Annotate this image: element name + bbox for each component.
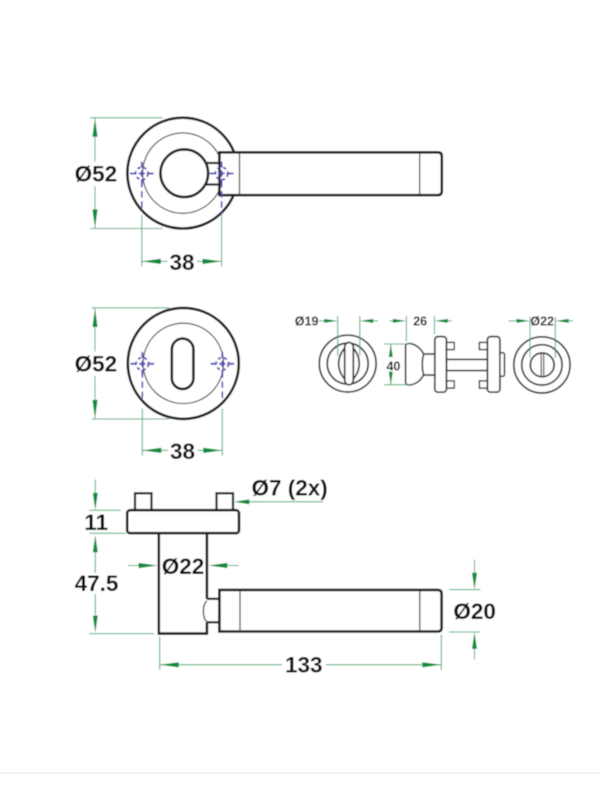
dim Ø20 upper line xyxy=(474,560,476,574)
svg-text:38: 38 xyxy=(169,250,194,275)
dim 47.5 arrow down xyxy=(93,616,98,633)
svg-text:38: 38 xyxy=(170,439,195,464)
svg-text:Ø19: Ø19 xyxy=(295,315,319,329)
dim Ø20 lower line xyxy=(474,649,476,660)
dim Ø52 arrow up xyxy=(92,308,97,327)
clip plate1 top xyxy=(446,342,454,349)
dim Ø52 extension lines xyxy=(92,308,170,419)
centerline left (blue dashed) xyxy=(141,371,143,398)
dim 11 extension lines xyxy=(89,510,126,533)
lever end cap line side xyxy=(419,590,421,632)
dim 40 text backing xyxy=(385,358,402,371)
dim Ø52 arrow down xyxy=(92,400,97,419)
thumbturn wing left xyxy=(339,345,349,382)
turn rose inner ring xyxy=(327,343,368,384)
centerline right (blue dashed) xyxy=(221,181,223,213)
dim 38 arrow right xyxy=(203,259,222,264)
escutcheon inner ring xyxy=(143,323,223,403)
dim 26 extension lines xyxy=(406,316,434,342)
dim Ø19 right line xyxy=(373,320,379,322)
dim 38 arrow right xyxy=(203,448,222,453)
lever grip divider xyxy=(239,152,241,195)
screw mark left xyxy=(130,162,154,186)
turn knob dome xyxy=(406,344,424,385)
Ø7 leader arrow xyxy=(234,499,249,504)
dim Ø52 line xyxy=(94,118,96,229)
dim 26 right arrow xyxy=(434,319,448,323)
dim 38 line xyxy=(142,449,222,451)
clip plate2 bottom xyxy=(479,381,487,388)
dim 133 arrow left xyxy=(160,662,179,667)
screw mark left xyxy=(131,352,155,376)
dim 47.5 upper line xyxy=(94,552,96,573)
release slot xyxy=(541,353,544,376)
rose plate 1 xyxy=(435,337,447,393)
centerline left (blue dashed) xyxy=(141,181,143,211)
svg-text:40: 40 xyxy=(386,360,400,374)
turn knob neck xyxy=(423,354,436,375)
VIEW 5: release rose front view xyxy=(509,315,574,393)
dim Ø22 left arrow xyxy=(139,563,158,568)
footer rule xyxy=(0,773,600,774)
dim Ø19 right arrow xyxy=(360,319,374,323)
dim Ø52 arrow up xyxy=(92,118,97,137)
dim Ø22 extension lines xyxy=(530,317,555,358)
VIEW 6: handle side view xyxy=(75,475,496,677)
dim 38 text backing xyxy=(168,440,198,461)
dim Ø19 left arrow xyxy=(324,319,338,323)
dim 26 left arrow xyxy=(393,319,407,323)
release rose middle ring xyxy=(522,345,562,385)
dim Ø22 right line xyxy=(227,565,239,567)
VIEW 4: thumbturn side view xyxy=(384,315,505,393)
screw post left xyxy=(135,493,152,510)
keyhole slot xyxy=(172,339,194,389)
screw mark right xyxy=(210,162,234,186)
lever arm xyxy=(219,152,441,195)
clip plate2 top xyxy=(479,342,487,349)
dim 38 extension lines xyxy=(142,409,222,456)
svg-text:Ø52: Ø52 xyxy=(75,351,118,376)
lever end cap line xyxy=(419,152,421,195)
svg-text:Ø22: Ø22 xyxy=(162,554,205,579)
dim 133 arrow right xyxy=(422,662,441,667)
svg-text:Ø7 (2x): Ø7 (2x) xyxy=(252,475,328,500)
dim 133 line xyxy=(160,664,442,666)
rose inner ring xyxy=(143,133,223,213)
thumbturn bar xyxy=(345,343,354,385)
dim 38 arrow left xyxy=(142,259,161,264)
rear tab xyxy=(500,353,505,377)
clip plate1 bottom xyxy=(446,381,454,388)
dim Ø19 extension lines xyxy=(338,316,360,356)
neck cylinder xyxy=(159,533,207,633)
release disc xyxy=(530,353,554,377)
dim 38 line xyxy=(142,260,222,262)
dim 38 text backing xyxy=(168,251,198,272)
screw mark right xyxy=(211,352,235,376)
dim 38 arrow left xyxy=(142,448,161,453)
spindle xyxy=(446,359,487,370)
Ø7 leader line xyxy=(247,501,323,503)
dim 11 upper line xyxy=(94,480,96,494)
dim Ø22 right arrow xyxy=(555,319,569,323)
dim 11 arrow down xyxy=(93,493,98,510)
dim 40 arrow up xyxy=(389,344,393,357)
dim 133 text backing xyxy=(282,654,326,676)
svg-text:Ø22: Ø22 xyxy=(530,315,554,329)
neck circle xyxy=(161,149,209,197)
dim 26 left line xyxy=(390,320,395,322)
rose plate 2 xyxy=(487,337,500,393)
dim Ø52 extension lines xyxy=(90,118,163,229)
dim 47.5 lower line xyxy=(94,594,96,615)
svg-text:Ø20: Ø20 xyxy=(453,599,496,624)
dim 40 line xyxy=(390,344,392,385)
dim 47.5 bottom extension xyxy=(89,633,154,635)
dim Ø22 left line xyxy=(128,565,139,567)
dim Ø20 arrow up xyxy=(472,632,477,649)
VIEW 1: handle front view xyxy=(75,118,442,275)
svg-text:11: 11 xyxy=(84,510,108,535)
svg-text:26: 26 xyxy=(413,315,427,329)
release rose outer circle xyxy=(514,337,570,393)
turn rose outer circle xyxy=(319,335,376,392)
thumbturn wing right xyxy=(349,345,359,382)
centerline right (blue dashed) xyxy=(221,371,223,398)
escutcheon outer circle xyxy=(128,308,239,419)
rose plate side xyxy=(127,510,239,533)
svg-text:133: 133 xyxy=(285,652,323,677)
dim 47.5 arrow up xyxy=(93,535,98,552)
dim Ø20 arrow down xyxy=(472,573,477,590)
svg-text:Ø52: Ø52 xyxy=(75,161,118,186)
screw post right xyxy=(217,493,234,510)
pivot bearing arc xyxy=(203,601,207,622)
VIEW 3: thumbturn front view xyxy=(295,315,378,392)
lever arm side xyxy=(219,590,441,632)
lever neck connector xyxy=(203,163,220,185)
rose outer circle xyxy=(127,118,238,229)
VIEW 2: escutcheon front view xyxy=(75,308,239,464)
pivot collar xyxy=(207,599,220,623)
dim Ø22 left arrow xyxy=(517,319,531,323)
dim Ø22 right line xyxy=(568,320,573,322)
dim Ø22 right arrow xyxy=(208,563,227,568)
dim 40 extension lines xyxy=(384,344,410,385)
dim Ø22 left line xyxy=(509,320,519,322)
dim Ø20 extension lines xyxy=(449,590,481,632)
svg-text:47.5: 47.5 xyxy=(75,571,119,596)
dim Ø19 left line xyxy=(319,320,326,322)
lever grip divider side xyxy=(239,590,241,632)
dim 26 right line xyxy=(447,320,452,322)
dim 133 extension lines xyxy=(160,635,442,671)
dim 40 arrow down xyxy=(389,372,393,385)
dim Ø52 line xyxy=(94,308,96,419)
dim 38 extension lines xyxy=(142,215,222,266)
dim Ø52 arrow down xyxy=(92,209,97,228)
